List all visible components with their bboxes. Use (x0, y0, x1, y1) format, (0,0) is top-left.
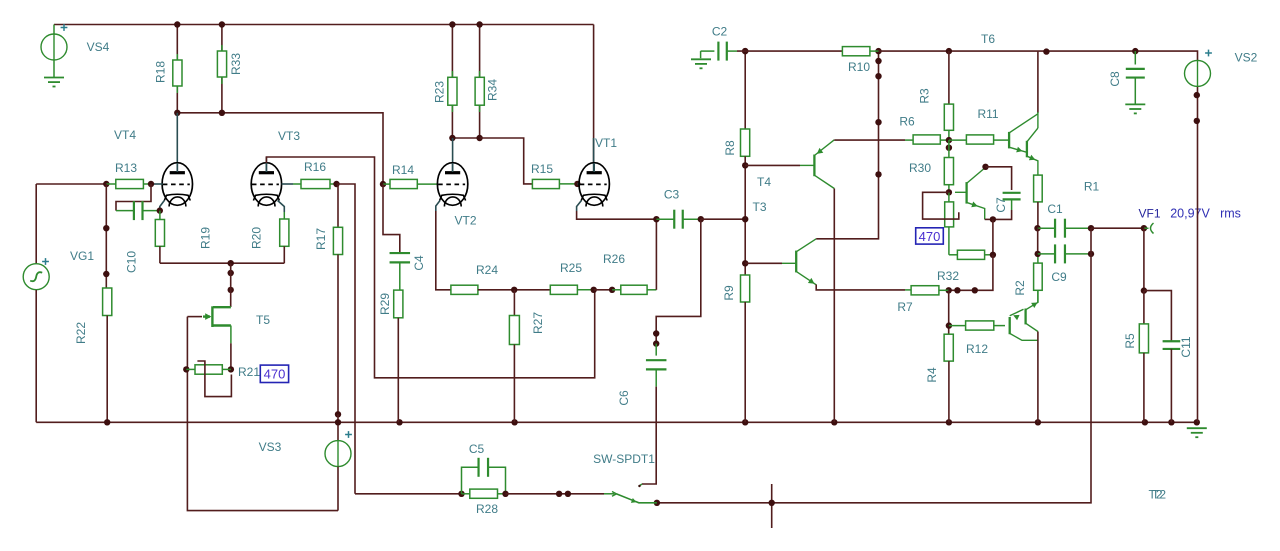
node T4 base (742, 162, 748, 168)
node R21 left (183, 366, 189, 372)
svg-text:470: 470 (919, 229, 941, 244)
ground main (1187, 428, 1207, 437)
node VT4 cathode (157, 207, 163, 213)
resistor R14 (390, 179, 417, 188)
svg-text:VT2: VT2 (454, 214, 476, 228)
node Q5 collector (982, 164, 988, 170)
svg-text:C8: C8 (1108, 71, 1122, 87)
resistor R5 (1139, 324, 1148, 353)
node joint R22 b (103, 271, 109, 277)
wire pot bottom to R32 (948, 227, 950, 255)
node switch common (654, 500, 660, 506)
capacitor C1 (1055, 219, 1065, 238)
svg-text:T6: T6 (981, 32, 995, 46)
wire VG1 bottom (35, 290, 37, 422)
node cathode bus (228, 260, 234, 266)
svg-text:VT3: VT3 (278, 129, 300, 143)
wire T3 emitter to R7 (816, 285, 905, 290)
node R14 left (380, 181, 386, 187)
transistor T4 (813, 155, 815, 177)
wire down to R32 right (992, 219, 994, 254)
node R26 left (609, 287, 615, 293)
node R34 bottom (476, 135, 482, 141)
wire R24-R25 (478, 289, 550, 291)
resistor R10 (842, 47, 870, 56)
node C9 left (1035, 251, 1041, 257)
resistor R20 (280, 219, 289, 246)
svg-text:C5: C5 (469, 442, 485, 456)
wire T3 base (745, 262, 782, 264)
probe VF1 tip (1144, 223, 1154, 234)
source VG1 (23, 264, 49, 290)
node VT1 grid (574, 181, 580, 187)
wire R8 top (744, 51, 746, 129)
wire R17 top (337, 184, 339, 227)
capacitor C7 (1003, 193, 1021, 200)
wire grid to C10 (116, 184, 151, 211)
node joint r7 a (972, 287, 978, 293)
node C8 top (1132, 48, 1138, 54)
resistor R9 (741, 275, 750, 302)
wire C1-C9 left (1037, 228, 1039, 254)
ground C8 (1125, 104, 1145, 113)
node joint R22 a (103, 225, 109, 231)
wire R3 top lead (948, 51, 950, 104)
wire stub T2 tap (771, 484, 773, 528)
resistor R7 (911, 286, 939, 295)
tube VT1 (579, 163, 609, 207)
wire VT3 grid lead (282, 183, 293, 185)
capacitor C4 (390, 253, 411, 262)
transistor T6 darlington pair (1009, 132, 1027, 157)
wire T4 base (745, 164, 800, 166)
wire C3 node to C6 (656, 219, 701, 343)
svg-text:R32: R32 (937, 269, 959, 283)
resistor R26 (621, 285, 647, 294)
node VT4 plate (174, 110, 180, 116)
node joint vs2 a (1194, 92, 1200, 98)
wire T5 source lead (230, 326, 232, 344)
node ground VS2 (1194, 419, 1200, 425)
switch throw contact (639, 484, 643, 487)
wire B+ rail right (879, 51, 1198, 60)
wire R26 up to C3 node (655, 219, 657, 290)
wire output to VF1 (1091, 227, 1144, 229)
wire R17 bottom (337, 255, 339, 415)
node joint b (228, 287, 234, 293)
wire VT2 plate node (452, 137, 479, 139)
wire R27 bottom (513, 345, 515, 423)
resistor R3 (944, 104, 953, 130)
wire pot wiper bracket (923, 192, 959, 219)
resistor R16 (301, 179, 330, 188)
svg-text:20,97V: 20,97V (1170, 207, 1210, 221)
wire VS3 top (337, 414, 339, 440)
wire VT3 cathode lead (278, 201, 285, 213)
svg-text:R11: R11 (977, 107, 998, 121)
resistor R13 (116, 179, 144, 188)
svg-text:R29: R29 (378, 293, 392, 315)
resistor R1 (1034, 175, 1043, 202)
svg-text:R25: R25 (560, 261, 582, 275)
svg-text:R22: R22 (74, 322, 88, 344)
value box 470 (pot) (916, 228, 944, 244)
node T3 base (742, 260, 748, 266)
resistor R25 (550, 285, 577, 294)
wire VF1 down to R5 (1143, 228, 1145, 290)
wire C5 left (462, 467, 479, 494)
wire to T5 drain (230, 263, 232, 307)
node VT4 grid (148, 181, 154, 187)
wire R33 branch (221, 25, 223, 113)
node R3 top (946, 48, 952, 54)
wire C6 to switch throw (642, 387, 656, 484)
svg-text:T3: T3 (752, 200, 766, 214)
node C9 right (1088, 251, 1094, 257)
wire C5 right (488, 467, 506, 494)
resistor R17 (333, 227, 342, 254)
wire VT1 plate drop (593, 25, 595, 164)
node R18 top (174, 21, 180, 27)
node R33 top (219, 21, 225, 27)
wire VT3 plate lead (265, 157, 267, 172)
node joint a (228, 270, 234, 276)
capacitor C6 (646, 360, 667, 369)
wire R27 top (513, 290, 515, 316)
node joint sw b (565, 491, 571, 497)
ground C2 (691, 59, 711, 68)
source VS4 (41, 34, 67, 60)
ground VS4 (44, 78, 64, 87)
wire feedback to switch (657, 254, 1091, 503)
wire C3 to driver base rail (701, 218, 745, 220)
wire R18 branch (176, 25, 178, 113)
wire VT3 plate to R25/R26 node (266, 157, 594, 378)
wire R9 bottom (744, 302, 746, 422)
node joint x878 a (875, 58, 881, 64)
node R10 right (875, 48, 881, 54)
wire R21 wiper bracket (197, 361, 231, 397)
capacitor C8 (1126, 69, 1145, 78)
switch pole contact (612, 492, 617, 497)
transistor T3 (795, 251, 797, 273)
wire to C11 (1144, 291, 1172, 342)
node ground VS3 (335, 419, 341, 425)
node R12 left (946, 322, 952, 328)
node R24/R27 (511, 287, 517, 293)
source VS3 (325, 441, 351, 467)
svg-text:R2: R2 (1013, 280, 1027, 296)
wire main ground rail (36, 421, 1197, 423)
node C7/R32/Q5e (990, 216, 996, 222)
tube VT4 (162, 163, 192, 207)
resistor R29 (394, 290, 403, 318)
wire R19 bottom (159, 246, 161, 263)
node R28 left (458, 491, 464, 497)
wire VT1 cathode to C3 (577, 211, 657, 219)
resistor R34 (475, 77, 484, 105)
resistor R28 (470, 489, 498, 498)
svg-text:R3: R3 (918, 88, 932, 104)
resistor R19 (155, 220, 164, 247)
svg-text:VG1: VG1 (70, 249, 94, 263)
node output collectors (1043, 48, 1049, 54)
svg-text:R24: R24 (476, 263, 498, 277)
svg-text:rms: rms (1220, 207, 1241, 221)
resistor R15 (532, 179, 559, 188)
capacitor C5 (479, 458, 489, 477)
svg-text:VS2: VS2 (1235, 51, 1258, 65)
wire R23 branch (451, 25, 453, 139)
wire R4 bottom (948, 361, 950, 422)
svg-text:C9: C9 (1051, 270, 1067, 284)
svg-text:VT1: VT1 (595, 136, 617, 150)
resistor R12 (966, 321, 994, 330)
wire C11 bottom (1170, 349, 1172, 422)
resistor R32 (957, 250, 984, 259)
node joint sw a (556, 491, 562, 497)
svg-text:C3: C3 (664, 188, 680, 202)
svg-text:R19: R19 (199, 227, 213, 249)
wire VT1 grid lead (577, 183, 579, 185)
svg-text:C4: C4 (412, 255, 426, 271)
node joint x878 c (875, 119, 881, 125)
wire R8 to R9 (744, 156, 746, 275)
wire R29 bottom (397, 318, 399, 423)
svg-text:R8: R8 (723, 140, 737, 156)
node ground R29 (396, 419, 402, 425)
node joint R30 top (946, 145, 952, 151)
node C6 joint a (653, 330, 659, 336)
capacitor C11 (1163, 341, 1181, 349)
node C3 left (653, 216, 659, 222)
wire VT4 plate lead (176, 113, 178, 172)
wire source to R21 (230, 343, 232, 369)
svg-text:R15: R15 (531, 162, 553, 176)
node R33 bottom (219, 110, 225, 116)
svg-text:R14: R14 (392, 163, 414, 177)
node ground T2 coll (1035, 419, 1041, 425)
svg-text:VT4: VT4 (114, 128, 136, 142)
node VT2 plate (449, 135, 455, 141)
value box 470 (R21) (260, 365, 288, 382)
node R30 bottom / pot top (946, 189, 952, 195)
node R34 top (476, 21, 482, 27)
node ground R4 (946, 419, 952, 425)
wire VG1 top (35, 184, 37, 264)
node R32 right (990, 252, 996, 258)
wire top-left B+ rail (54, 24, 594, 26)
capacitor C10 (134, 201, 143, 220)
svg-text:C7: C7 (994, 197, 1008, 213)
resistor R23 (448, 77, 457, 105)
wire VG1 to R13 (36, 183, 106, 185)
wire VT1 plate lead (593, 138, 595, 172)
node throw tip (638, 485, 640, 487)
wire to switch pole (506, 493, 605, 495)
capacitor C9 (1055, 244, 1065, 263)
node R4 top (946, 287, 952, 293)
svg-text:470: 470 (264, 367, 286, 382)
tube VT2 (437, 163, 467, 207)
wire T3 collector to R10 node (816, 51, 878, 239)
node VF1 (1141, 225, 1147, 231)
wire R32 node to R7/R4 (949, 255, 993, 290)
svg-text:R28: R28 (476, 502, 498, 516)
resistor pot 470 body (945, 202, 954, 227)
svg-text:R13: R13 (115, 161, 137, 175)
capacitor C2 (718, 42, 726, 61)
svg-text:C10: C10 (125, 251, 139, 273)
wire VT2 cathode to R24 (436, 211, 451, 290)
svg-text:C11: C11 (1179, 336, 1193, 357)
wire C7 bottom (993, 210, 1012, 219)
node output C1 left (1034, 225, 1040, 231)
resistor R4 (944, 334, 953, 361)
resistor R30 (944, 158, 953, 185)
wire gate down to VS3 minus (187, 317, 338, 511)
wire T4 collector to ground (833, 189, 835, 423)
svg-text:R20: R20 (250, 227, 264, 249)
wire VT4-plate rail to R14 (177, 113, 383, 184)
wire R1 bottom to output (1037, 202, 1039, 228)
wire VS4 to ground (53, 60, 55, 78)
wire R5 top lead (1143, 291, 1145, 324)
source VS2 (1185, 60, 1211, 86)
svg-text:R26: R26 (603, 252, 625, 266)
resistor R22 (103, 288, 112, 316)
wire R20 bottom (283, 246, 285, 263)
svg-text:C6: C6 (617, 390, 631, 406)
wire Q5 collector to C7 (986, 167, 1012, 190)
svg-text:R5: R5 (1123, 333, 1137, 349)
wire VT2 grid lead (417, 183, 437, 185)
wire R16 node to R28 (355, 493, 462, 495)
wire VS4 top lead (53, 25, 55, 35)
svg-text:R33: R33 (229, 53, 243, 75)
node R21 right (228, 366, 234, 372)
svg-text:R6: R6 (899, 115, 915, 129)
wire VT4 cathode lead (160, 201, 165, 211)
transistor T2 output pair (1010, 309, 1026, 335)
node C3 right (698, 216, 704, 222)
node R5 top (1141, 287, 1147, 293)
wire R22 bottom (106, 316, 108, 423)
node ground R27 (511, 419, 517, 425)
svg-text:R23: R23 (433, 81, 447, 103)
wire VT1 cathode lead (577, 201, 582, 212)
resistor R18 (173, 60, 182, 86)
svg-text:R4: R4 (925, 367, 939, 383)
node joint x878 b (875, 73, 881, 79)
wire VT4 grid lead (151, 183, 163, 185)
svg-text:T5: T5 (256, 313, 270, 327)
wire R34 branch (479, 25, 481, 139)
svg-text:VS4: VS4 (87, 40, 110, 54)
resistor R21 pot body (195, 365, 222, 374)
node joint vs2 b (1194, 118, 1200, 124)
wire C2 node to R10 (737, 50, 842, 52)
svg-text:VS3: VS3 (259, 440, 282, 454)
node ground R9 (742, 419, 748, 425)
svg-text:C1: C1 (1047, 202, 1063, 216)
svg-text:R12: R12 (966, 342, 988, 356)
svg-text:C2: C2 (712, 25, 728, 39)
tube VT3 (251, 163, 281, 207)
svg-text:R16: R16 (304, 160, 326, 174)
svg-text:R9: R9 (722, 285, 736, 301)
svg-text:SW-SPDT1: SW-SPDT1 (593, 452, 655, 466)
svg-text:R1: R1 (1084, 180, 1100, 194)
node C6 joint b (653, 340, 659, 346)
resistor R27 (509, 316, 519, 345)
node R16 right (333, 181, 339, 187)
node ground C11 (1168, 419, 1174, 425)
node R3/R6/R11 (946, 137, 952, 143)
wire VS2 bottom (1197, 87, 1199, 422)
node R28 right (502, 491, 508, 497)
node ground R5 (1142, 419, 1148, 425)
transistor Q5 bias (965, 182, 967, 204)
resistor R24 (451, 285, 478, 294)
wire output collectors to B+ (1037, 52, 1039, 113)
node R23 top (449, 21, 455, 27)
resistor R11 (966, 135, 993, 144)
svg-text:VF1: VF1 (1138, 207, 1160, 221)
node R8 top rail (742, 48, 748, 54)
svg-text:R27: R27 (531, 312, 545, 334)
wire VT2 cathode lead (436, 201, 440, 212)
node joint r7 b (954, 287, 960, 293)
node T2 tap (769, 500, 775, 506)
wire to R15 (480, 138, 533, 184)
svg-text:R21: R21 (238, 365, 260, 379)
wire Q5 emitter join (985, 218, 993, 220)
wire C2 ground stub (700, 51, 702, 58)
svg-text:R10: R10 (848, 60, 870, 74)
node ground T4 coll (831, 419, 837, 425)
wire VS3 bottom (337, 467, 339, 511)
node C1 right (1088, 225, 1094, 231)
node VS3 top joint (335, 411, 341, 417)
resistor R6 (913, 135, 940, 144)
wire cathode bus VT4-VT3 (160, 262, 284, 264)
wire VT2 plate lead (452, 138, 454, 172)
wire C1-C9 right (1090, 228, 1092, 254)
svg-text:R30: R30 (909, 161, 931, 175)
wire R5 bottom (1143, 353, 1145, 422)
node R25 right (591, 287, 597, 293)
svg-text:T4: T4 (757, 175, 771, 189)
svg-text:R18: R18 (154, 61, 168, 83)
wire T5 gate (187, 316, 202, 318)
capacitor C3 (674, 210, 683, 229)
node joint x878 d (875, 171, 881, 177)
svg-text:T2: T2 (1152, 488, 1166, 502)
wire R4 top lead (948, 290, 950, 334)
switch SW-SPDT1 arm (617, 494, 657, 503)
wire R14 node to C4 (383, 184, 400, 253)
resistor R2 (1034, 263, 1043, 290)
wire R22 branch (105, 184, 107, 288)
svg-text:R7: R7 (897, 300, 913, 314)
wire T4 emitter to R6 (834, 139, 905, 141)
wire R16 node to switch line (337, 184, 356, 494)
node ground R22 (104, 419, 110, 425)
wire R25-R26 (594, 289, 612, 291)
wire C4 to R29 (399, 262, 401, 290)
svg-text:R34: R34 (486, 79, 500, 101)
